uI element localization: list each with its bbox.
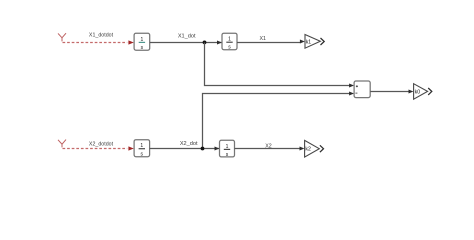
svg-text:k2: k2 (305, 147, 311, 153)
red arrowhead into integrator Int1 (128, 40, 133, 44)
unconnected input marker (row 1) (58, 33, 66, 41)
unconnected output chevron after k2 (320, 145, 324, 152)
arrowhead into sum input 1 (349, 84, 354, 88)
arrowhead into integrator Int4 (215, 147, 220, 151)
gain k1 (305, 35, 320, 49)
gain k2 (305, 140, 320, 157)
wire Int4 to gain k2 (235, 148, 300, 150)
wire sum to gain k0 (370, 91, 409, 93)
junction node X1_dot (203, 41, 207, 45)
red arrowhead into integrator Int3 (128, 146, 133, 150)
wire Int1 to Int2 (150, 42, 222, 44)
svg-text:X1_dot: X1_dot (178, 33, 196, 39)
dashed wire X2_dotdot (63, 148, 128, 150)
svg-text:X2: X2 (265, 144, 272, 150)
wire Int3 to Int4 (150, 148, 219, 150)
svg-text:X2_dot: X2_dot (180, 141, 198, 147)
svg-text:k0: k0 (415, 89, 421, 95)
integrator Int4 (1/s, row 2 second) (220, 140, 235, 158)
arrowhead into integrator Int2 (217, 41, 222, 45)
unconnected output chevron after k0 (428, 88, 432, 95)
junction node X2_dot (201, 147, 205, 151)
svg-text:k1: k1 (306, 39, 312, 45)
wire Int2 to gain k1 (237, 42, 300, 44)
svg-text:X2_dotdot: X2_dotdot (89, 141, 114, 147)
svg-text:X1_dotdot: X1_dotdot (89, 32, 114, 38)
arrowhead into gain k0 (409, 90, 414, 94)
sum block (+ -) (354, 81, 370, 98)
wire node X2_dot up to sum (vertical + horizontal) (203, 94, 350, 149)
unconnected output chevron after k1 (321, 38, 325, 45)
integrator Int3 (1/s, row 2 first) (134, 140, 150, 158)
dashed wire X1_dotdot (63, 42, 128, 44)
gain k0 (414, 84, 428, 100)
svg-text:X1: X1 (259, 36, 266, 42)
unconnected input marker (row 2) (58, 140, 66, 148)
integrator Int2 (1/s, row 1 second) (222, 33, 237, 51)
arrowhead into gain k1 (300, 40, 305, 44)
arrowhead into sum input 2 (349, 92, 354, 96)
arrowhead into gain k2 (300, 147, 305, 151)
wire node X1_dot down to sum (vertical + horizontal) (205, 43, 350, 86)
integrator Int1 (1/s, row 1 first) (134, 33, 150, 51)
